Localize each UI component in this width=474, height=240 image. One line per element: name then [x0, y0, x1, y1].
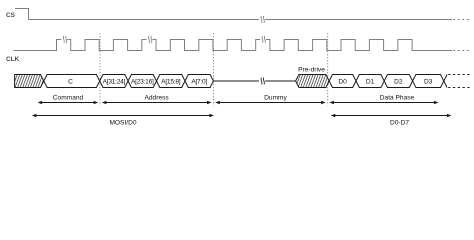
svg-text:Address: Address [144, 95, 169, 102]
svg-text:MOSI/D0: MOSI/D0 [109, 120, 136, 127]
svg-text:A[15:8]: A[15:8] [161, 78, 181, 85]
svg-text:D0-D7: D0-D7 [390, 120, 409, 127]
svg-text:CS: CS [6, 12, 16, 19]
svg-text:Command: Command [53, 95, 84, 102]
svg-text:A[23:16]: A[23:16] [131, 78, 154, 85]
svg-text:Pre-drive: Pre-drive [298, 67, 325, 74]
svg-text:D0: D0 [338, 78, 347, 85]
svg-text:Data Phase: Data Phase [380, 95, 415, 102]
svg-text:D2: D2 [394, 78, 403, 85]
svg-text:A[31:24]: A[31:24] [103, 78, 126, 85]
svg-text:D1: D1 [366, 78, 375, 85]
svg-text:Dummy: Dummy [264, 95, 287, 102]
svg-text:C: C [68, 78, 73, 85]
svg-text:CLK: CLK [6, 56, 20, 63]
svg-text:A[7:0]: A[7:0] [191, 78, 207, 85]
svg-text:D3: D3 [424, 78, 433, 85]
